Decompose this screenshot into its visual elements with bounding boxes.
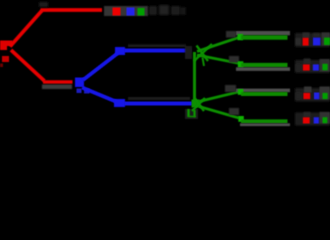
cluster 2 O square (red) [303, 64, 310, 70]
atom N1 label (blue) [75, 78, 84, 88]
cluster 1 O square (red) [303, 38, 309, 46]
faint gray parallel above N2 bond [128, 44, 186, 47]
bond line 2 (green horizontal) [241, 63, 288, 67]
bond horizontal to N1 (red) [43, 80, 73, 84]
bond M2 up-right (green) [199, 92, 240, 102]
atom N1 sublabel (small blue marks) [77, 89, 90, 94]
formula O square (red) [113, 8, 121, 16]
bond N3 horizontal (blue) [124, 102, 192, 106]
cluster 1 gray glyph [296, 38, 302, 45]
junction Cl1 (green) [238, 34, 244, 40]
cluster 3 Cl square (green) [323, 93, 328, 99]
bond M1 down-right (green) [197, 55, 240, 64]
bond N1-N2 (blue diagonal up) [83, 53, 118, 80]
formula trailing text smudges (faint gray) [149, 5, 186, 15]
cluster 2 Cl square (green) [322, 64, 327, 71]
node M2 cluster (green strokes) [192, 98, 205, 111]
wedge label 3 (gray blob) [225, 85, 236, 92]
faint gray parallel above N3 bond [128, 97, 190, 100]
junction Cl3 (green) [238, 89, 244, 95]
formula smudge band (gray, top) [104, 6, 148, 16]
wedge band 3 (gray above) [236, 89, 290, 93]
cluster 2 N square (blue) [313, 64, 319, 70]
junction Cl2 (green) [238, 61, 244, 67]
bond M1-M2 vertical (green) [193, 52, 196, 106]
cluster 1 gray cols above [303, 33, 330, 46]
node M1 cluster (green strokes) [194, 44, 212, 66]
bond M2 down-right (green) [199, 107, 239, 119]
formula Cl square (green) [138, 8, 145, 16]
faint smudge above top bend [39, 2, 48, 7]
wedge label 4 (gray blob) [229, 108, 239, 115]
wedge label 2 (gray blob) [229, 56, 239, 63]
atom N2 label (blue) [115, 47, 125, 55]
bond N2 horizontal (blue) [124, 49, 191, 53]
cluster 4 Cl square (green) [323, 117, 328, 123]
bond N1-N3 (blue diagonal down) [82, 88, 117, 103]
cluster 2 gray cols above [304, 59, 330, 72]
cluster 3 gray cols above [304, 87, 330, 100]
atom O2 label (small red square below O1) [2, 56, 9, 62]
node M2 blob (green) [192, 100, 200, 108]
bond line 1 (green horizontal) [241, 35, 288, 39]
atom O2 tiny mark [0, 64, 3, 68]
bond top horizontal (red) [41, 8, 103, 12]
bond M1 up-right (green) [197, 37, 240, 52]
bond line 3 (green horizontal) [241, 92, 288, 96]
wedge band 1 (gray above) [236, 31, 290, 35]
cluster 3 backdrop (faint gray) [295, 88, 330, 102]
cluster 3 O square (red) [303, 93, 310, 99]
cluster 4 backdrop (faint gray) [295, 113, 330, 126]
wedge band 4 (gray below) [240, 123, 290, 126]
bond line 4 (green horizontal) [241, 119, 288, 123]
cluster 2 backdrop (faint gray) [295, 60, 330, 73]
bond O1 down-right (red diagonal) [11, 50, 45, 81]
cluster 1 backdrop (faint gray) [295, 33, 330, 47]
cluster 4 N square (blue) [314, 117, 319, 123]
bond O1 up-right (red diagonal) [10, 11, 42, 47]
atom O1 label (red, top-left) [0, 41, 13, 51]
wedge band 2 (gray below) [236, 67, 290, 71]
cluster 2 gray glyph [296, 64, 302, 71]
cluster 4 gray cols above [304, 112, 330, 124]
formula N square (blue) [127, 8, 135, 16]
node M2 smudge (gray) [185, 109, 198, 119]
cluster 4 O square (red) [303, 117, 310, 123]
gray parallel bond under red-N1 bond [42, 85, 72, 90]
atom N3 label (blue) [114, 99, 125, 107]
cluster 1 Cl square (green) [324, 38, 330, 45]
node M1 smudge (gray) [185, 46, 192, 59]
cluster 1 N square (blue) [313, 38, 320, 46]
cluster 3 gray glyph [296, 93, 302, 100]
node M2 Cl text (green marks) [188, 109, 196, 118]
cluster 3 N square (blue) [314, 93, 319, 100]
junction Cl4 (green) [238, 116, 244, 122]
wedge label 1 (gray blob) [226, 31, 236, 38]
